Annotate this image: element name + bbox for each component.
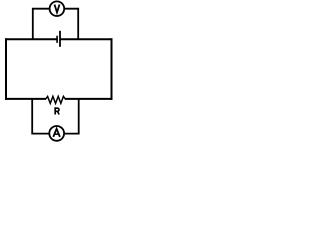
wire: big loop left edge — [5, 38, 7, 100]
wire: top edge left segment — [5, 38, 57, 40]
background — [0, 0, 117, 150]
wire: bottom edge right segment — [65, 98, 113, 100]
wire: big loop right edge — [111, 38, 113, 100]
voltmeter V (meter circle) — [50, 1, 65, 16]
resistor R (zigzag element) — [46, 96, 65, 103]
label A (ammeter letter) — [53, 129, 60, 137]
ammeter A (meter circle) — [49, 126, 64, 141]
wire: bottom edge left segment — [5, 98, 46, 100]
wire: voltmeter parallel branch (left riser, top run, right riser) — [33, 9, 78, 40]
wire: top edge right segment — [60, 38, 113, 40]
battery B1: long positive plate — [59, 31, 61, 47]
wire: ammeter parallel branch (left riser, bottom run, right riser) — [32, 99, 78, 134]
label V (voltmeter letter) — [55, 5, 60, 13]
battery B1: short negative plate — [56, 36, 58, 43]
label R (resistor designator) — [55, 107, 59, 114]
